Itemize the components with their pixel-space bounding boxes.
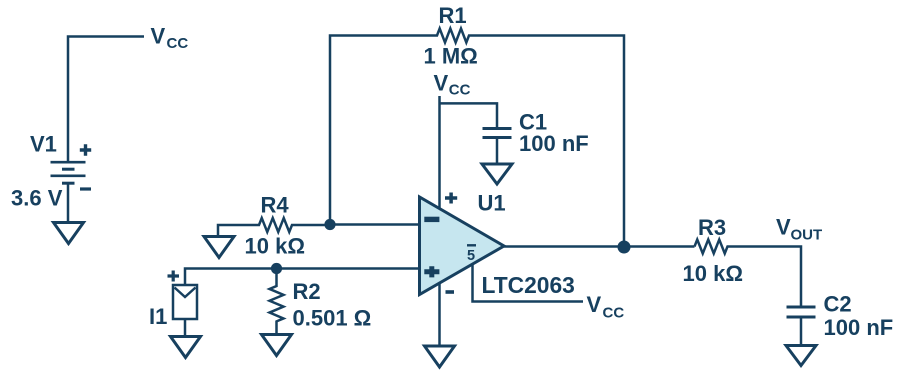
plus sign supply	[445, 193, 457, 204]
ground (below I1)	[171, 337, 201, 358]
svg-text:CC: CC	[449, 82, 471, 99]
svg-text:V: V	[587, 292, 602, 317]
plus sign battery	[80, 144, 91, 155]
capacitor C1	[483, 129, 512, 138]
svg-text:3.6 V: 3.6 V	[11, 186, 63, 211]
node A (R2 / I1 / noninverting junction)	[271, 263, 282, 274]
capacitor C2	[787, 307, 816, 317]
wire C2 to ground	[800, 317, 803, 345]
plus sign noninverting input	[424, 266, 439, 277]
svg-text:I1: I1	[149, 304, 167, 329]
svg-text:V1: V1	[30, 132, 57, 157]
ground (left of R4)	[204, 237, 234, 258]
wire I1 top to noninverting rail	[185, 269, 420, 286]
svg-text:LTC2063: LTC2063	[482, 272, 575, 298]
node C (output / feedback junction)	[618, 241, 631, 254]
svg-text:CC: CC	[603, 305, 625, 322]
battery V1	[51, 162, 86, 183]
minus sign bottom supply	[446, 290, 455, 294]
wire C1 to ground	[496, 138, 499, 164]
minus sign battery	[80, 187, 91, 190]
svg-text:1 MΩ: 1 MΩ	[424, 44, 478, 69]
wire pin 5 (SHDN) to Vcc	[473, 264, 584, 302]
current source I1	[173, 285, 197, 319]
svg-text:100 nF: 100 nF	[824, 315, 894, 340]
wire Vcc rail to V1 top	[68, 37, 144, 162]
resistor R4 with ground	[218, 218, 330, 236]
wire V1 bottom to ground	[67, 183, 70, 222]
svg-text:5: 5	[467, 248, 475, 264]
wire I1 bottom to ground	[184, 319, 187, 336]
svg-text:V: V	[776, 215, 791, 240]
op-amp U1	[420, 197, 505, 295]
svg-text:U1: U1	[478, 191, 506, 216]
svg-text:V: V	[434, 71, 449, 96]
svg-text:0.501 Ω: 0.501 Ω	[293, 306, 372, 331]
wire inverting input	[330, 223, 420, 226]
svg-text:C2: C2	[824, 292, 852, 317]
svg-text:R1: R1	[439, 3, 467, 28]
ground (below C2)	[786, 346, 816, 366]
plus sign I1	[168, 271, 180, 282]
resistor R3	[695, 240, 802, 307]
overline of pin 5	[467, 244, 476, 246]
svg-text:R4: R4	[261, 193, 290, 218]
svg-text:V: V	[151, 24, 166, 49]
svg-text:R2: R2	[293, 279, 321, 304]
ground (below V1)	[54, 223, 84, 244]
ground (below op-amp)	[425, 346, 455, 367]
wire op-amp bottom supply to ground	[438, 283, 441, 346]
resistor R2	[270, 269, 284, 335]
node B (feedback / R4 / inverting junction)	[324, 219, 335, 230]
svg-text:R3: R3	[698, 215, 726, 240]
svg-text:100 nF: 100 nF	[519, 131, 589, 156]
svg-text:CC: CC	[167, 35, 189, 52]
svg-text:OUT: OUT	[791, 227, 823, 244]
wire branch to C1	[440, 103, 498, 127]
svg-text:10 kΩ: 10 kΩ	[683, 261, 743, 286]
resistor R1 feedback loop	[330, 29, 624, 248]
wire Vcc supply into op-amp top	[438, 96, 441, 208]
minus sign inverting input	[424, 217, 439, 222]
wire op-amp output	[504, 245, 695, 248]
ground (below C1)	[482, 164, 512, 184]
ground (below R2)	[262, 335, 292, 356]
svg-text:10 kΩ: 10 kΩ	[245, 234, 305, 259]
